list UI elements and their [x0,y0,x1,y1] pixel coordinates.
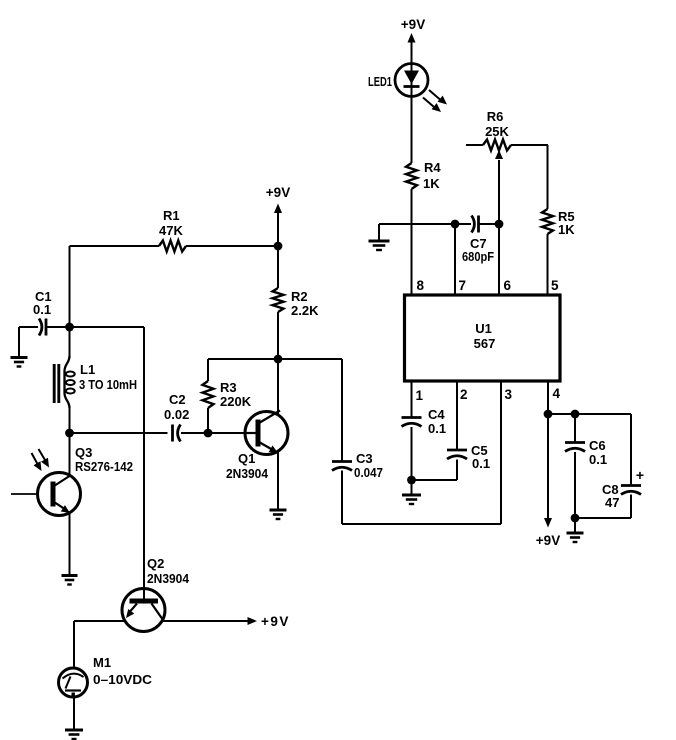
+9V supply (R2 top) [266,185,290,246]
wire Q1 collector-emitter column [277,359,279,509]
capacitor C2 0.02 [164,392,189,442]
ground (Q3 emitter) [62,576,78,585]
svg-text:L1: L1 [80,362,95,377]
wire C3 top [341,359,343,461]
ground (C1) [11,358,28,367]
capacitor C3 0.047 [332,451,383,480]
svg-text:3: 3 [505,387,513,402]
pin 5 label [551,278,559,293]
svg-text:2: 2 [460,387,468,402]
wire U1 pin 3 down [500,381,502,524]
svg-text:2N3904: 2N3904 [147,571,190,586]
junction C4/C5 ground node [407,476,416,485]
op-amp U1 567 (tone decoder IC) [405,295,561,381]
+9V supply (pin 4) [536,414,560,548]
wire C8 right leg [630,414,632,485]
svg-text:0.1: 0.1 [428,421,446,436]
svg-text:47: 47 [605,495,619,510]
wire L1 to node B [69,407,71,433]
inductor L1 3 TO 10mH [54,327,137,408]
svg-text:680pF: 680pF [462,249,494,264]
svg-text:8: 8 [417,278,425,293]
svg-text:+9V: +9V [401,17,425,32]
svg-text:2N3904: 2N3904 [226,466,269,481]
junction R2/Q1 collector [274,355,283,364]
wire C1 node to R1 [69,246,71,327]
junction C7 left / pin 7 [451,220,460,229]
svg-text:R3: R3 [220,380,237,395]
wire C8 bottom [575,495,631,519]
wire node B to Q3 collector [69,433,71,476]
svg-text:C4: C4 [428,407,445,422]
svg-text:3 TO 10mH: 3 TO 10mH [79,377,137,392]
svg-text:220K: 220K [220,394,252,409]
svg-text:C2: C2 [169,392,186,407]
svg-text:0.1: 0.1 [589,452,607,467]
resistor R4 1K [406,160,441,191]
Q3 light arrow 1 [39,449,53,470]
wire pin4 to C6 [548,413,575,415]
wire U1 pin 2 to C5 [456,381,458,449]
svg-text:4: 4 [553,386,561,401]
junction pin4/+9V [544,410,553,419]
label LED1 [368,74,392,89]
wire node A to Q2 base column [70,326,145,328]
capacitor C5 0.1 [447,443,490,471]
svg-text:25K: 25K [485,124,509,139]
junction C6/C8 ground node [571,514,580,523]
wire U1 pin 4 [547,381,549,414]
svg-text:0.1: 0.1 [33,302,51,317]
svg-text:+9V: +9V [266,185,290,200]
wire pin7/C7 to ground [379,223,455,225]
LED1 emission arrow 2 [423,98,444,116]
pin 3 label [505,387,513,402]
svg-text:+9V: +9V [536,533,560,548]
svg-text:RS276-142: RS276-142 [75,459,133,474]
svg-text:C3: C3 [356,451,373,466]
pin 2 label [460,387,468,402]
capacitor C8 47 (electrolytic) [602,467,644,510]
svg-text:R2: R2 [291,289,308,304]
junction R3/C2/Q1 base [204,429,213,438]
potentiometer R6 25K [466,109,548,151]
svg-text:M1: M1 [93,655,111,670]
svg-text:1K: 1K [423,176,440,191]
phototransistor Q3 RS276-142 [11,445,133,516]
resistor R1 47K [70,208,279,252]
+9V output arrow [248,614,290,629]
svg-text:6: 6 [504,278,512,293]
ground (C6/C8) [567,518,584,542]
wire C4 to ground node [411,427,413,480]
svg-text:2.2K: 2.2K [291,303,319,318]
pin 1 label [416,388,424,403]
wire C6 to C8 top [575,413,631,415]
svg-text:567: 567 [474,336,496,351]
LED LED1 [395,64,428,97]
wire U1 pin 1 to C4 [411,381,413,417]
junction node B (L1/C2/Q3) [65,429,74,438]
transistor Q1 2N3904 [226,411,288,482]
wire R6 wiper to U1 pin 6 [495,150,503,295]
ground (M1) [65,730,83,739]
capacitor C4 0.1 [402,407,447,436]
pin 6 label [504,278,512,293]
svg-text:R1: R1 [163,208,180,223]
wire U1 pin 7 [454,224,456,295]
svg-text:C6: C6 [589,438,606,453]
svg-text:47K: 47K [159,223,183,238]
wire Q2 emitter-collector row [74,620,248,622]
wire C5 to ground node [456,460,458,481]
capacitor C1 0.1 [19,289,70,336]
resistor R3 220K [203,359,252,433]
svg-text:0.02: 0.02 [164,407,189,422]
wire M1 to ground [73,697,75,729]
svg-text:U1: U1 [475,321,492,336]
svg-text:+: + [636,467,644,483]
svg-text:LED1: LED1 [368,74,392,89]
junction R1/R2/+9V [274,242,283,251]
wire Q3 emitter to ground [69,513,71,574]
wire pin3 bottom run [342,523,501,525]
wire R4 to U1 pin 8 [411,189,413,295]
ground (pin 7 wire) [369,224,390,250]
ground (C4/C5) [402,480,421,504]
wire Q2 emitter to M1 [73,621,75,669]
ground (Q1 emitter) [270,510,287,519]
wire R5 to U1 pin 5 [547,234,549,295]
pin 4 label [553,386,561,401]
svg-text:5: 5 [551,278,559,293]
wire C2 to R3 node [181,432,246,434]
wire C1 to ground [18,327,20,356]
Q3 light arrow 2 [32,453,45,473]
svg-text:7: 7 [459,278,467,293]
LED1 emission arrow 1 [429,90,450,108]
wire C3 bottom [341,471,343,525]
svg-text:Q1: Q1 [238,451,255,466]
svg-text:R4: R4 [424,160,441,175]
svg-text:Q3: Q3 [75,445,92,460]
junction C7 right / pin 6 [495,220,504,229]
svg-text:Q2: Q2 [147,556,164,571]
pin 7 label [459,278,467,293]
svg-text:R6: R6 [487,109,504,124]
pin 8 label [417,278,425,293]
wire R2 bottom run [208,358,342,360]
junction C6 top [571,410,580,419]
resistor R5 1K [542,145,575,237]
svg-text:1: 1 [416,388,424,403]
svg-text:0–10VDC: 0–10VDC [93,672,153,687]
resistor R2 2.2K [273,246,320,359]
svg-text:0.1: 0.1 [472,456,490,471]
wire node B to C2 [70,432,168,434]
wire LED1 cathode to R4 [411,97,413,164]
svg-text:0.047: 0.047 [354,465,383,480]
capacitor C6 0.1 [565,414,607,467]
wire C6 bottom [574,452,576,518]
wire ground node to C5 [412,479,458,481]
+9V supply rail (LED anode) [401,17,425,63]
meter M1 0-10VDC [59,655,153,697]
junction node A (C1/L1/R1) [65,323,74,332]
capacitor C7 680pF [455,216,499,265]
transistor Q2 2N3904 [122,327,190,632]
svg-text:+9V: +9V [261,614,290,629]
svg-text:1K: 1K [558,222,575,237]
